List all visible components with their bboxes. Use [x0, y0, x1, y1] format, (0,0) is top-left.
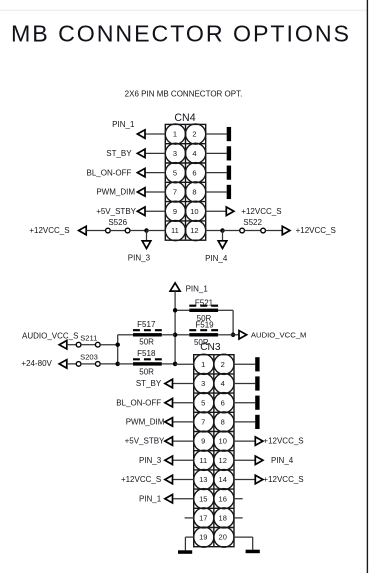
- wire down to PIN_4: [222, 231, 224, 241]
- label PIN_1 (top): [186, 284, 209, 293]
- wire arrow to S203: [67, 363, 77, 365]
- label PIN_4: [205, 254, 228, 263]
- svg-text:CN3: CN3: [200, 342, 221, 353]
- label F518: [137, 349, 156, 358]
- svg-text:12: 12: [219, 456, 227, 465]
- port arrow ST_BY (CN3 pin3): [165, 379, 173, 388]
- jumper S203: [76, 362, 100, 367]
- ground (pin20): [246, 550, 260, 554]
- wire CN3 pin12: [234, 459, 255, 461]
- connector CN4 label: [174, 112, 195, 124]
- wire CN3 pin6: [234, 402, 255, 404]
- label +12VCC_S (left of S526): [29, 226, 69, 235]
- label +24-80V: [21, 359, 52, 368]
- svg-text:S203: S203: [80, 352, 98, 361]
- svg-text:PWM_DIM: PWM_DIM: [126, 418, 165, 427]
- wire CN3 pin19 to ground: [185, 537, 193, 550]
- svg-text:4: 4: [221, 379, 225, 388]
- wire CN3 pin7: [173, 421, 194, 423]
- svg-text:S522: S522: [243, 218, 262, 227]
- svg-text:18: 18: [219, 514, 227, 523]
- wire bus to F521: [175, 309, 189, 311]
- wire CN3 pin11: [173, 459, 194, 461]
- wire CN4 pin10: [206, 210, 227, 212]
- no-connect bar CN3 pin4: [255, 376, 259, 390]
- wire CN3 pin2: [234, 363, 255, 365]
- resistor F521 50R: [189, 306, 218, 312]
- label S203: [80, 352, 98, 361]
- label S522: [243, 218, 262, 227]
- label 50R (F519): [194, 338, 209, 347]
- no-connect bar CN4 pin4: [227, 146, 231, 160]
- port arrow +12VCC_S (CN3 pin10): [255, 437, 263, 446]
- port arrow PIN_1 (CN3 pin15): [165, 494, 173, 503]
- label S211: [80, 334, 97, 343]
- label F519: [195, 321, 214, 330]
- label PWM_DIM (CN3 pin7): [126, 418, 165, 427]
- port arrow PIN_3 (down): [142, 241, 151, 249]
- resistor F518 50R: [133, 359, 162, 365]
- svg-text:6: 6: [192, 168, 196, 177]
- port arrow +5V_STBY (CN4 pin9): [137, 207, 145, 216]
- svg-text:ST_BY: ST_BY: [136, 379, 162, 388]
- wire CN4 pin6: [206, 172, 227, 174]
- svg-text:CN4: CN4: [174, 112, 195, 124]
- svg-text:ST_BY: ST_BY: [106, 149, 132, 158]
- svg-text:F517: F517: [137, 320, 156, 329]
- port arrow PWM_DIM (CN4 pin7): [137, 188, 145, 197]
- wire CN3 pin17 stub: [185, 517, 194, 519]
- svg-text:16: 16: [219, 494, 227, 503]
- label +12VCC_S (CN3 pin13): [121, 475, 161, 484]
- port arrow ST_BY (CN4 pin3): [137, 149, 145, 158]
- svg-text:9: 9: [173, 207, 177, 216]
- label F517: [137, 320, 156, 329]
- svg-text:20: 20: [219, 533, 227, 542]
- wire CN4 pin8: [206, 191, 227, 193]
- wire junction to S522: [223, 230, 240, 232]
- jumper S211: [76, 342, 100, 347]
- label ST_BY: [106, 149, 132, 158]
- port arrow +24-80V: [59, 360, 67, 369]
- wire F519 to junction: [218, 334, 233, 336]
- svg-text:3: 3: [173, 149, 177, 158]
- svg-text:14: 14: [219, 475, 227, 484]
- svg-text:PIN_1: PIN_1: [112, 120, 135, 129]
- wire bus to F519: [175, 334, 189, 336]
- junction node PIN_3: [144, 228, 149, 233]
- label BL_ON-OFF: [86, 168, 131, 177]
- no-connect bar CN4 pin8: [227, 185, 231, 199]
- wire CN3 pin16 stub: [234, 498, 243, 500]
- port arrow PWM_DIM (CN3 pin7): [165, 418, 173, 427]
- svg-text:2: 2: [192, 130, 196, 139]
- svg-text:7: 7: [173, 188, 177, 197]
- wire CN3 pin18 stub: [234, 517, 243, 519]
- svg-text:PIN_3: PIN_3: [139, 456, 162, 465]
- resistor F519 50R: [189, 330, 218, 336]
- wire CN4 pin12 to junction: [206, 230, 223, 232]
- junction node bus/F521: [173, 308, 178, 313]
- caption 2X6 PIN MB CONNECTOR OPT.: [125, 90, 243, 99]
- label BL_ON-OFF (CN3 pin5): [116, 398, 161, 407]
- svg-text:8: 8: [192, 188, 196, 197]
- svg-text:S526: S526: [108, 218, 127, 227]
- connector CN4: [165, 124, 205, 241]
- svg-text:+5V_STBY: +5V_STBY: [125, 437, 165, 446]
- wire arrow to S526: [86, 230, 105, 232]
- svg-text:AUDIO_VCC_M: AUDIO_VCC_M: [251, 330, 307, 339]
- svg-text:4: 4: [192, 149, 196, 158]
- svg-text:PIN_1: PIN_1: [139, 494, 162, 503]
- jumper S522: [240, 228, 266, 233]
- no-connect bar CN3 pin2: [255, 357, 259, 371]
- svg-text:15: 15: [199, 494, 207, 503]
- label +12VCC_S (CN4 pin10): [241, 207, 281, 216]
- svg-text:17: 17: [199, 514, 207, 523]
- svg-text:2: 2: [221, 360, 225, 369]
- label PIN_1: [112, 120, 135, 129]
- wire CN3 pin20 to ground: [234, 537, 253, 550]
- label 50R (F517): [139, 338, 154, 347]
- wire CN4 pin3: [145, 152, 165, 154]
- junction node F518/CN3 pin1: [173, 362, 178, 367]
- label +12VCC_S (right of S522): [296, 226, 336, 235]
- svg-text:PWM_DIM: PWM_DIM: [96, 188, 135, 197]
- wire corner to F517: [118, 334, 133, 336]
- wire CN3 pin10: [234, 440, 255, 442]
- port arrow PIN_4 (CN3 pin12): [255, 456, 263, 465]
- port arrow PIN_4 (down): [218, 241, 227, 249]
- jumper S526: [106, 228, 130, 233]
- svg-text:+24-80V: +24-80V: [21, 359, 52, 368]
- label PIN_3 (CN3 pin11): [139, 456, 162, 465]
- wire arrow to S211: [67, 344, 77, 346]
- svg-text:PIN_1: PIN_1: [186, 284, 209, 293]
- svg-text:12: 12: [190, 226, 198, 235]
- wire S526 to junction: [130, 230, 147, 232]
- svg-text:PIN_4: PIN_4: [205, 254, 228, 263]
- svg-text:BL_ON-OFF: BL_ON-OFF: [86, 168, 131, 177]
- port arrow +12VCC_S (CN3 pin13): [165, 475, 173, 484]
- wire CN3 pin5: [173, 402, 194, 404]
- no-connect bar CN4 pin6: [227, 166, 231, 180]
- svg-text:50R: 50R: [139, 368, 154, 377]
- wire CN3 pin3: [173, 383, 194, 385]
- faint page-top rule: [0, 9, 367, 11]
- wire CN4 pin7: [145, 191, 165, 193]
- label S526: [108, 218, 127, 227]
- wire left bus vertical: [117, 335, 119, 364]
- no-connect bar CN4 pin2: [227, 127, 231, 141]
- port arrow PIN_1 (CN4 pin1): [137, 130, 145, 139]
- wire CN4 pin1: [145, 133, 165, 135]
- svg-text:1: 1: [201, 360, 205, 369]
- wire CN3 pin14: [234, 479, 255, 481]
- svg-text:PIN_3: PIN_3: [128, 253, 151, 262]
- svg-text:3: 3: [201, 379, 205, 388]
- svg-text:11: 11: [199, 456, 207, 465]
- wire CN4 pin5: [145, 172, 165, 174]
- label 50R (F521): [197, 314, 212, 323]
- wire CN4 pin4: [206, 152, 227, 154]
- junction node S211/bus: [115, 342, 120, 347]
- svg-text:+12VCC_S: +12VCC_S: [296, 226, 336, 235]
- port arrow +12VCC_S right: [282, 226, 290, 235]
- wire bus to CN3 pin1: [175, 363, 194, 365]
- svg-text:PIN_4: PIN_4: [271, 456, 294, 465]
- wire down to PIN_3: [146, 231, 148, 241]
- svg-text:13: 13: [199, 475, 207, 484]
- svg-text:+12VCC_S: +12VCC_S: [263, 437, 303, 446]
- wire F518 to main bus: [162, 363, 175, 365]
- label +12VCC_S (CN3 pin14): [263, 475, 303, 484]
- label PWM_DIM: [96, 188, 135, 197]
- label ST_BY (CN3 pin3): [136, 379, 162, 388]
- port arrow BL_ON-OFF (CN4 pin5): [137, 168, 145, 177]
- wire S522 to arrow: [265, 230, 282, 232]
- label +12VCC_S (CN3 pin10): [263, 437, 303, 446]
- junction node S203/bus: [115, 362, 120, 367]
- svg-text:5: 5: [201, 398, 205, 407]
- svg-text:F518: F518: [137, 349, 156, 358]
- port arrow +5V_STBY (CN3 pin9): [165, 437, 173, 446]
- wire bus to F518: [118, 363, 133, 365]
- svg-text:1: 1: [173, 130, 177, 139]
- svg-text:MB CONNECTOR OPTIONS: MB CONNECTOR OPTIONS: [11, 21, 349, 47]
- svg-text:F519: F519: [195, 321, 214, 330]
- label AUDIO_VCC_S: [22, 331, 78, 340]
- port arrow AUDIO_VCC_S: [59, 340, 67, 349]
- border frame right edge: [366, 0, 368, 573]
- port arrow BL_ON-OFF (CN3 pin5): [165, 398, 173, 407]
- svg-text:7: 7: [201, 418, 205, 427]
- junction node PIN_4: [220, 228, 225, 233]
- junction node bus/F519: [173, 333, 178, 338]
- svg-text:50R: 50R: [139, 338, 154, 347]
- svg-text:AUDIO_VCC_S: AUDIO_VCC_S: [22, 331, 78, 340]
- connector CN3: [194, 354, 234, 547]
- port arrow +12VCC_S left: [79, 226, 87, 235]
- wire CN3 pin13: [173, 479, 194, 481]
- ground (pin19): [178, 550, 192, 554]
- wire CN3 pin15: [173, 498, 194, 500]
- label PIN_1 (CN3 pin15): [139, 494, 162, 503]
- wire junction to AUDIO_VCC_M: [233, 334, 240, 336]
- port arrow +12VCC_S (CN4 pin10): [226, 207, 234, 216]
- wire S203 to left bus: [100, 363, 118, 365]
- wire F517 to bus: [162, 334, 175, 336]
- port arrow PIN_1 (up): [170, 283, 180, 291]
- svg-text:19: 19: [199, 533, 207, 542]
- junction node F521/F519: [231, 333, 236, 338]
- svg-text:+12VCC_S: +12VCC_S: [121, 475, 161, 484]
- label PIN_4 (CN3 pin12): [271, 456, 294, 465]
- port arrow PIN_3 (CN3 pin11): [165, 456, 173, 465]
- svg-text:F521: F521: [195, 299, 214, 308]
- label AUDIO_VCC_M: [251, 330, 307, 339]
- port arrow AUDIO_VCC_M: [239, 331, 247, 340]
- resistor F517 50R: [133, 330, 162, 336]
- label 50R (F518): [139, 368, 154, 377]
- label +5V_STBY (CN3 pin9): [125, 437, 165, 446]
- svg-text:+5V_STBY: +5V_STBY: [96, 207, 136, 216]
- svg-text:10: 10: [190, 207, 198, 216]
- svg-text:5: 5: [173, 168, 177, 177]
- connector CN3 label: [200, 342, 221, 353]
- svg-text:+12VCC_S: +12VCC_S: [241, 207, 281, 216]
- wire CN3 pin4: [234, 383, 255, 385]
- wire junction to CN4 pin11: [147, 230, 166, 232]
- svg-text:2X6 PIN MB CONNECTOR OPT.: 2X6 PIN MB CONNECTOR OPT.: [125, 90, 243, 99]
- wire CN4 pin2: [206, 133, 227, 135]
- label F521: [195, 299, 214, 308]
- svg-text:11: 11: [171, 226, 179, 235]
- no-connect bar CN3 pin8: [255, 415, 259, 429]
- svg-text:8: 8: [221, 418, 225, 427]
- title MB CONNECTOR OPTIONS: [11, 21, 349, 47]
- wire CN3 pin8: [234, 421, 255, 423]
- svg-text:6: 6: [221, 398, 225, 407]
- wire CN3 pin9: [173, 440, 194, 442]
- no-connect bar CN3 pin6: [255, 396, 259, 410]
- wire CN4 pin9: [145, 210, 165, 212]
- svg-text:BL_ON-OFF: BL_ON-OFF: [116, 398, 161, 407]
- wire F521 to corner: [218, 310, 233, 335]
- svg-text:+12VCC_S: +12VCC_S: [263, 475, 303, 484]
- port arrow +12VCC_S (CN3 pin14): [255, 475, 263, 484]
- wire PIN_1 bus vertical: [174, 291, 176, 364]
- svg-text:+12VCC_S: +12VCC_S: [29, 226, 69, 235]
- svg-text:10: 10: [219, 437, 227, 446]
- svg-text:9: 9: [201, 437, 205, 446]
- label PIN_3: [128, 253, 151, 262]
- svg-text:S211: S211: [80, 334, 97, 343]
- wire S211 to left bus: [100, 344, 118, 346]
- label +5V_STBY: [96, 207, 136, 216]
